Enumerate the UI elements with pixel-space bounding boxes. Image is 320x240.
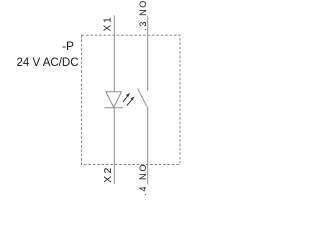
wire LED cathode to X2 bbox=[113, 107, 115, 184]
LED D1 cathode bar bbox=[104, 107, 123, 109]
svg-text:.3 NO: .3 NO bbox=[138, 0, 148, 31]
LED D1 triangle (anode) bbox=[106, 92, 122, 108]
svg-text:24 V AC/DC: 24 V AC/DC bbox=[17, 57, 79, 69]
module outline (dashed enclosure) bbox=[82, 35, 181, 164]
wire contact to .4 NO bbox=[147, 106, 149, 184]
wire .3 NO to contact bbox=[147, 16, 149, 91]
svg-text:.4 NO: .4 NO bbox=[138, 162, 148, 196]
svg-text:X1: X1 bbox=[103, 15, 114, 31]
svg-text:-P: -P bbox=[62, 39, 74, 53]
LED light emission arrow 2 bbox=[127, 96, 135, 105]
LED light emission arrow 1 bbox=[123, 93, 130, 102]
NO contact moving blade bbox=[138, 89, 147, 107]
svg-text:X2: X2 bbox=[102, 165, 114, 183]
wire X1 to LED anode bbox=[113, 16, 115, 92]
